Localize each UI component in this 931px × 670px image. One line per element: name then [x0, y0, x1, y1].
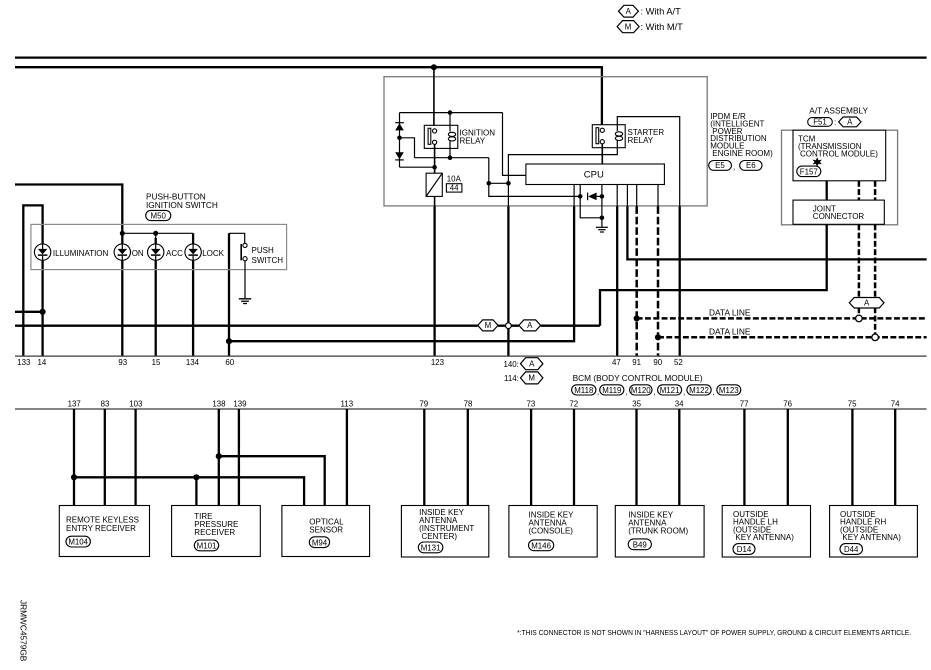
node ON junction — [120, 231, 125, 236]
svg-text:73: 73 — [527, 399, 536, 408]
data line 1 — [637, 317, 927, 320]
svg-text:E6: E6 — [746, 161, 756, 170]
svg-text:114:: 114: — [504, 374, 519, 383]
svg-text:CONNECTOR: CONNECTOR — [813, 212, 865, 221]
hexagon M on line — [478, 320, 498, 331]
wire CPU pin 47 inside — [616, 185, 618, 207]
ground symbol push switch — [239, 298, 251, 300]
svg-text:A: A — [527, 321, 533, 330]
svg-text:M: M — [625, 22, 632, 31]
box outside handle LH — [722, 506, 810, 558]
svg-text:,: , — [683, 388, 685, 397]
svg-text:M123: M123 — [719, 386, 739, 395]
thin connector line lower section — [15, 408, 927, 410]
wire 137 — [73, 409, 75, 506]
wire link between verticals — [489, 182, 509, 184]
wire bus line 1 — [15, 56, 927, 58]
connector M120 oval — [630, 385, 652, 395]
wire 83 — [104, 409, 106, 506]
diode D2 (cathode down) — [395, 152, 404, 159]
svg-text:M146: M146 — [531, 541, 551, 550]
node diode mid junction — [397, 136, 402, 141]
wire diode mid to coil-bottom line — [400, 138, 415, 158]
svg-text:52: 52 — [674, 358, 683, 367]
node open circle data line 1 — [856, 315, 863, 322]
wire TCM solid pin through joint connector — [826, 181, 828, 200]
svg-text:83: 83 — [101, 399, 110, 408]
svg-text:(TRUNK ROOM): (TRUNK ROOM) — [628, 526, 688, 535]
svg-text:KEY ANTENNA): KEY ANTENNA) — [842, 533, 901, 542]
diode D3 (cathode left) — [587, 193, 589, 201]
CPU box — [526, 164, 665, 185]
svg-text:M: M — [485, 321, 492, 330]
wire 76 — [787, 409, 789, 506]
wire coil bottom line — [415, 157, 489, 159]
svg-text:RELAY: RELAY — [460, 136, 486, 145]
legend hexagon M — [617, 21, 639, 33]
svg-text:ACC: ACC — [166, 249, 183, 258]
connector E6 oval — [740, 161, 762, 171]
wire 73 — [530, 409, 532, 506]
svg-text:78: 78 — [464, 399, 473, 408]
node junction y477 mid — [193, 474, 199, 480]
wire right leg down to diode line — [489, 158, 580, 197]
wire CPU pin to diode — [579, 185, 581, 197]
A/T assembly outer box — [782, 130, 898, 225]
wire diode bottom corner to contact wire — [400, 166, 435, 168]
svg-text:140:: 140: — [503, 360, 518, 369]
data line 2 — [658, 336, 927, 339]
star mark — [813, 157, 822, 167]
connector F157 oval — [797, 166, 821, 177]
svg-text:M120: M120 — [631, 386, 651, 395]
wire TCM dashed below JC to data line 1 — [858, 224, 861, 315]
svg-text:D44: D44 — [844, 545, 859, 554]
svg-text:A: A — [529, 360, 535, 369]
svg-text:72: 72 — [569, 399, 578, 408]
wire bus line 2 with drop to starter relay — [15, 67, 602, 125]
svg-text:91: 91 — [632, 358, 641, 367]
box remote keyless entry receiver — [59, 506, 149, 557]
connector E5 oval — [709, 161, 732, 171]
lamp LOCK — [185, 244, 201, 260]
wire pin 91 dashed below IPDM — [635, 206, 638, 356]
wire link down into tire box — [195, 477, 197, 505]
svg-text:: With M/T: : With M/T — [641, 22, 684, 32]
box optical sensor — [282, 506, 370, 557]
wire CPU ground pin — [601, 185, 603, 227]
wire full width line from CPU right pin — [627, 206, 926, 259]
connector M146 oval — [529, 540, 554, 551]
box inside key antenna console — [509, 506, 597, 558]
svg-text:(CONSOLE): (CONSOLE) — [529, 526, 574, 535]
node diode right junction — [600, 194, 605, 199]
wire 77 — [743, 409, 745, 506]
hexagon A (F51) — [839, 117, 861, 127]
node open circle data line 2 — [872, 334, 879, 341]
connector F51 oval — [808, 118, 833, 127]
svg-text:ENTRY RECEIVER: ENTRY RECEIVER — [66, 524, 136, 533]
svg-text:,: , — [654, 388, 656, 397]
wire starter coil bottom — [508, 140, 617, 206]
svg-text:74: 74 — [891, 399, 900, 408]
lamp ACC — [148, 244, 164, 260]
wire pin 90 dashed below IPDM — [657, 206, 660, 356]
wire CPU pin to right bus inside — [626, 185, 628, 207]
svg-text:,: , — [597, 388, 599, 397]
wire ignition relay contact to fuse — [434, 144, 436, 173]
wire CPU pin 90 inside — [657, 185, 659, 207]
node junction 137 — [71, 474, 77, 480]
svg-text:A: A — [626, 7, 632, 16]
connector M50 oval — [146, 210, 171, 220]
connector M131 oval — [418, 542, 443, 553]
svg-text:: With A/T: : With A/T — [641, 7, 682, 17]
svg-text:113: 113 — [341, 399, 354, 408]
svg-text:79: 79 — [419, 399, 428, 408]
wire TCM solid below JC to hexagon line — [600, 224, 827, 325]
starter relay contact bar — [596, 128, 599, 144]
node link junction left — [487, 181, 492, 186]
connector D14 oval — [733, 544, 755, 555]
box outside handle RH — [830, 506, 918, 558]
hexagon A over TCM wires — [849, 298, 884, 309]
svg-text:90: 90 — [653, 358, 662, 367]
wire hexagon M/A line — [15, 325, 478, 327]
svg-text:76: 76 — [783, 399, 792, 408]
wire ignition relay coil lead — [449, 113, 451, 132]
svg-text:44: 44 — [450, 184, 459, 193]
svg-text:M104: M104 — [68, 538, 88, 547]
node junction illumination wire — [40, 309, 46, 315]
wire 138 — [218, 409, 220, 506]
wire pin 47 below IPDM — [616, 206, 618, 356]
starter relay box — [592, 125, 625, 148]
svg-text:ILLUMINATION: ILLUMINATION — [53, 249, 109, 258]
svg-text:47: 47 — [612, 358, 621, 367]
svg-text:,: , — [625, 388, 627, 397]
ignition relay coil — [448, 132, 455, 136]
svg-text:75: 75 — [848, 399, 857, 408]
svg-text:133: 133 — [17, 358, 31, 367]
svg-text:M101: M101 — [197, 542, 217, 551]
ignition relay contact circles — [433, 129, 437, 133]
lamp ILLUMINATION — [34, 244, 50, 260]
connector M121 oval — [658, 385, 682, 395]
connector M101 oval — [194, 540, 218, 551]
TCM box — [793, 130, 886, 181]
connector M119 oval — [600, 385, 624, 395]
wire 72 — [573, 409, 575, 506]
svg-text:M: M — [528, 374, 535, 383]
ignition relay contact bar — [428, 128, 431, 144]
wire 34 — [678, 409, 680, 506]
connector B49 oval — [628, 539, 651, 550]
svg-text:A: A — [847, 118, 853, 127]
wire CPU pin to push-switch line — [229, 206, 574, 341]
svg-text:B49: B49 — [633, 540, 648, 549]
svg-text:KEY ANTENNA): KEY ANTENNA) — [735, 533, 794, 542]
label 44 box — [446, 184, 462, 192]
wire 133 to 14 bracket — [23, 205, 42, 356]
svg-text:JRMWC4579GB: JRMWC4579GB — [19, 600, 29, 662]
ignition relay U1 box — [424, 125, 458, 148]
wire stub y312 — [15, 311, 43, 313]
node junction on bus line 2 — [431, 64, 437, 70]
starter relay contact circles — [600, 128, 604, 132]
svg-text:M119: M119 — [602, 386, 622, 395]
wire ACC vertical — [155, 238, 157, 356]
svg-text:CONTROL MODULE): CONTROL MODULE) — [800, 150, 878, 159]
node coil bottom junction — [448, 155, 453, 160]
svg-text:137: 137 — [68, 399, 81, 408]
svg-text:PUSH: PUSH — [252, 246, 274, 255]
thin connector line top section — [15, 355, 927, 357]
push switch — [229, 233, 245, 243]
svg-text:14: 14 — [38, 358, 47, 367]
svg-text:35: 35 — [632, 399, 641, 408]
svg-text:CPU: CPU — [584, 170, 604, 181]
svg-text:CENTER): CENTER) — [422, 532, 458, 541]
svg-text:RELAY: RELAY — [628, 136, 654, 145]
wire 74 — [894, 409, 896, 506]
wire starter contact to CPU — [601, 144, 603, 164]
node link junction right — [506, 181, 511, 186]
svg-text:D14: D14 — [737, 545, 752, 554]
box tire pressure receiver — [172, 506, 261, 557]
connector M118 oval — [572, 385, 596, 395]
wire TCM dashed pin 1 — [858, 181, 861, 200]
svg-text:93: 93 — [118, 358, 127, 367]
svg-text:134: 134 — [186, 358, 200, 367]
box inside key antenna instrument center — [401, 506, 488, 558]
joint connector box — [793, 200, 884, 224]
wire push switch to ground — [244, 261, 246, 299]
svg-text:34: 34 — [675, 399, 684, 408]
svg-text:77: 77 — [740, 399, 749, 408]
svg-text:138: 138 — [212, 399, 226, 408]
wire pin 52 below IPDM — [679, 206, 681, 356]
svg-text:BCM (BODY CONTROL MODULE): BCM (BODY CONTROL MODULE) — [573, 373, 703, 383]
node coil top junction — [448, 110, 453, 115]
svg-text:103: 103 — [129, 399, 143, 408]
wire TCM dashed below JC to data line 2 — [874, 224, 877, 334]
svg-text:RECEIVER: RECEIVER — [194, 528, 235, 537]
wire 113 — [346, 409, 348, 506]
wire right leg into CPU left — [503, 113, 526, 176]
wire ACC stub up — [155, 233, 157, 245]
svg-text:LOCK: LOCK — [202, 249, 224, 258]
svg-text:60: 60 — [225, 358, 234, 367]
svg-text:*:THIS CONNECTOR IS NOT SHOWN: *:THIS CONNECTOR IS NOT SHOWN IN "HARNES… — [517, 628, 911, 637]
wire pin123 fuse output below IPDM — [433, 206, 435, 356]
svg-text:F51: F51 — [813, 118, 827, 127]
node diode left junction — [578, 194, 583, 199]
svg-text:M131: M131 — [421, 544, 441, 553]
node contact-fuse junction — [432, 165, 437, 170]
node ground junction — [600, 216, 605, 221]
connector D44 oval — [840, 544, 863, 555]
hexagon A on line — [519, 320, 541, 331]
svg-text:IGNITION SWITCH: IGNITION SWITCH — [146, 200, 218, 210]
svg-text:10A: 10A — [447, 175, 462, 184]
node junction 138 — [216, 453, 222, 459]
svg-text:F157: F157 — [800, 167, 818, 176]
IPDM E/R box — [384, 77, 707, 206]
svg-text:M94: M94 — [312, 538, 328, 547]
svg-text:15: 15 — [152, 358, 161, 367]
wire starter coil top line — [617, 117, 679, 207]
svg-text:SENSOR: SENSOR — [309, 526, 343, 535]
connector M123 oval — [717, 385, 741, 395]
svg-text:ON: ON — [132, 249, 144, 258]
wire ON feed — [15, 185, 122, 357]
wire diode bypass — [580, 196, 602, 217]
svg-text:DATA LINE: DATA LINE — [709, 308, 751, 317]
svg-text:A/T ASSEMBLY: A/T ASSEMBLY — [809, 105, 868, 115]
push-button ignition switch box — [31, 224, 287, 269]
wire LOCK vertical — [192, 233, 194, 356]
wire coil top line — [400, 112, 503, 114]
wire TCM dashed pin 2 — [874, 181, 877, 200]
wire ignition relay feed — [433, 67, 435, 126]
starter relay coil — [615, 132, 622, 136]
svg-text:M122: M122 — [689, 386, 709, 395]
diode D1 (cathode up) — [395, 122, 404, 124]
wire pin 60 vertical — [228, 233, 230, 356]
wire 139 — [238, 409, 240, 506]
wire 78 — [467, 409, 469, 506]
node data line 2 junction — [655, 334, 661, 340]
wire M/A below IPDM — [507, 206, 509, 356]
svg-text:E5: E5 — [715, 161, 725, 170]
node ACC junction — [153, 231, 158, 236]
wire fuse output — [434, 196, 436, 206]
svg-text:SWITCH: SWITCH — [252, 256, 284, 265]
lamp ON — [114, 244, 130, 260]
svg-text:A: A — [864, 299, 870, 308]
wire CPU pin to pushbutton line — [573, 185, 575, 207]
wire CPU pin 91 inside — [636, 185, 638, 207]
connector M122 oval — [687, 385, 711, 395]
svg-text:DATA LINE: DATA LINE — [709, 327, 751, 336]
wire link y477 — [74, 477, 304, 505]
node open circle M/A — [506, 323, 512, 329]
node data line 1 junction — [634, 315, 640, 321]
svg-text:123: 123 — [431, 358, 445, 367]
box inside key antenna trunk room — [615, 506, 704, 558]
svg-text:M50: M50 — [151, 211, 167, 220]
wire link y456 — [219, 456, 325, 505]
wire 35 — [635, 409, 637, 506]
wire diode chain vertical — [399, 113, 401, 168]
svg-text:M121: M121 — [660, 386, 680, 395]
svg-text:M118: M118 — [574, 386, 594, 395]
svg-text:,: , — [733, 163, 735, 172]
svg-text:,: , — [713, 388, 715, 397]
svg-text:ENGINE ROOM): ENGINE ROOM) — [712, 149, 773, 158]
ground symbol CPU — [596, 226, 608, 228]
wire 103 — [134, 409, 136, 506]
node junction on pin60 wire — [226, 338, 232, 344]
svg-text:139: 139 — [233, 399, 247, 408]
wire lamp link line — [122, 232, 193, 234]
wire 75 — [851, 409, 853, 506]
connector M94 oval — [309, 537, 329, 548]
svg-text::: : — [834, 118, 836, 127]
wire 79 — [423, 409, 425, 506]
connector M104 oval — [66, 536, 90, 547]
legend hexagon A — [619, 5, 639, 17]
fuse 10A 44 — [426, 173, 442, 196]
